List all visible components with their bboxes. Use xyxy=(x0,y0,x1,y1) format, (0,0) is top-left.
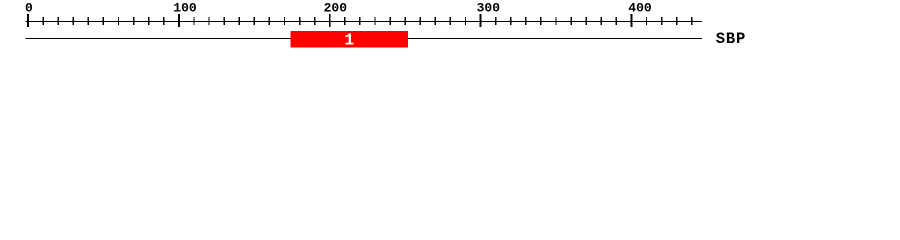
minor tick 80 xyxy=(148,17,149,25)
minor tick 60 xyxy=(118,17,119,25)
minor tick 270 xyxy=(435,17,436,25)
minor tick 240 xyxy=(389,17,390,25)
svg-text:400: 400 xyxy=(628,1,652,16)
minor tick 90 xyxy=(163,17,164,25)
minor tick 130 xyxy=(223,17,224,25)
minor tick 50 xyxy=(103,17,104,25)
minor tick 440 xyxy=(691,17,692,25)
major tick 300 xyxy=(480,14,482,27)
minor tick 390 xyxy=(616,17,617,25)
minor tick 170 xyxy=(284,17,285,25)
minor tick 150 xyxy=(254,17,255,25)
track axis line xyxy=(26,38,702,39)
minor tick 40 xyxy=(88,17,89,25)
minor tick 190 xyxy=(314,17,315,25)
svg-text:0: 0 xyxy=(25,1,33,16)
minor tick 260 xyxy=(420,17,421,25)
minor tick 340 xyxy=(540,17,541,25)
svg-text:300: 300 xyxy=(477,1,501,16)
genome-browser style ruler track with red feature box, label SBP xyxy=(0,0,900,58)
major tick 200 xyxy=(329,14,331,27)
feature box 1 (red) xyxy=(290,31,408,47)
svg-text:200: 200 xyxy=(324,1,348,16)
minor tick 230 xyxy=(374,17,375,25)
minor tick 120 xyxy=(208,17,209,25)
major tick 400 xyxy=(630,14,632,27)
minor tick 350 xyxy=(555,17,556,25)
minor tick 30 xyxy=(73,17,74,25)
minor tick 160 xyxy=(269,17,270,25)
minor tick 380 xyxy=(601,17,602,25)
minor tick 110 xyxy=(193,17,194,25)
minor tick 310 xyxy=(495,17,496,25)
minor tick 10 xyxy=(42,17,43,25)
minor tick 430 xyxy=(676,17,677,25)
minor tick 370 xyxy=(585,17,586,25)
minor tick 360 xyxy=(570,17,571,25)
ruler axis line xyxy=(26,21,702,22)
minor tick 20 xyxy=(57,17,58,25)
svg-text:SBP: SBP xyxy=(716,30,746,48)
minor tick 320 xyxy=(510,17,511,25)
minor tick 180 xyxy=(299,17,300,25)
svg-text:100: 100 xyxy=(173,1,197,16)
minor tick 70 xyxy=(133,17,134,25)
minor tick 210 xyxy=(344,17,345,25)
svg-text:1: 1 xyxy=(344,31,354,50)
minor tick 330 xyxy=(525,17,526,25)
minor tick 290 xyxy=(465,17,466,25)
major tick 100 xyxy=(178,14,180,27)
minor tick 250 xyxy=(404,17,405,25)
major tick 0 xyxy=(27,14,29,27)
minor tick 140 xyxy=(239,17,240,25)
minor tick 220 xyxy=(359,17,360,25)
minor tick 410 xyxy=(646,17,647,25)
minor tick 280 xyxy=(450,17,451,25)
minor tick 420 xyxy=(661,17,662,25)
